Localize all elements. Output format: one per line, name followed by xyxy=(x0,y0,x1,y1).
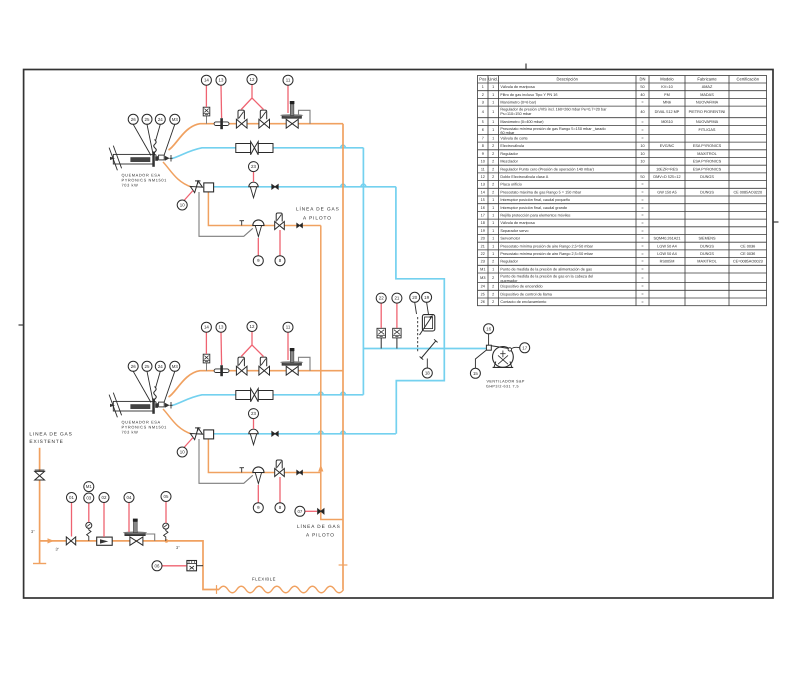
svg-text:Interruptor posición final, ca: Interruptor posición final, caudal grand… xyxy=(500,206,567,210)
ignition cable squiggle train2 xyxy=(154,387,157,403)
svg-text:1: 1 xyxy=(492,110,494,114)
svg-text:KV=10: KV=10 xyxy=(661,85,673,89)
leader 14 train1 xyxy=(205,85,207,107)
svg-text:A PILOTO: A PILOTO xyxy=(306,533,335,538)
wire gray impulse line train1 xyxy=(199,192,253,236)
svg-text:3: 3 xyxy=(482,101,484,105)
svg-text:24: 24 xyxy=(481,285,485,289)
svg-text:MN6: MN6 xyxy=(663,101,671,105)
svg-text:1: 1 xyxy=(492,198,494,202)
wire orange main gas line train1 xyxy=(169,124,344,150)
svg-text:Válvula de corte: Válvula de corte xyxy=(500,137,527,141)
balloon 13 train1 xyxy=(216,75,226,85)
svg-text:EXISTENTE: EXISTENTE xyxy=(29,439,63,445)
pressure switch 14 train1 xyxy=(206,116,208,124)
leader 18 xyxy=(426,359,428,369)
svg-text:19: 19 xyxy=(481,229,485,233)
valve on air line train2 xyxy=(272,432,278,437)
balloon 16 xyxy=(484,324,494,334)
leader 25 train1 xyxy=(147,124,154,156)
balloon 18 xyxy=(422,368,432,378)
orifice plate 13 train2 xyxy=(214,365,229,376)
valve on air line train1 xyxy=(272,185,278,190)
svg-text:PIETRO FIORENTINI: PIETRO FIORENTINI xyxy=(689,110,726,114)
text quemador train1 xyxy=(122,173,167,188)
svg-text:1: 1 xyxy=(492,214,494,218)
regulator 9 train2 xyxy=(253,467,264,473)
leader 04 xyxy=(128,503,130,533)
svg-text:10: 10 xyxy=(180,203,185,208)
svg-text:60 mbar: 60 mbar xyxy=(500,131,515,135)
parts list table xyxy=(478,76,767,306)
wire cyan air main from fan xyxy=(363,348,486,350)
valve on existing line xyxy=(35,471,45,480)
svg-text:LGW 50 A4: LGW 50 A4 xyxy=(657,244,676,248)
svg-text:50: 50 xyxy=(640,85,644,89)
svg-text:CE=0085AO0023: CE=0085AO0023 xyxy=(733,260,763,264)
balloon 24 train1 xyxy=(155,114,165,124)
svg-text:7: 7 xyxy=(482,137,484,141)
svg-text:21: 21 xyxy=(481,244,485,248)
svg-text:2: 2 xyxy=(492,175,494,179)
svg-text:DUNGS: DUNGS xyxy=(700,190,714,194)
balloon 11 train2 xyxy=(283,322,293,332)
relief valve and box 10 train1 xyxy=(190,181,202,193)
svg-text:2: 2 xyxy=(492,190,494,194)
leader 05 xyxy=(165,502,167,524)
svg-text:Manómetro (0=400 mbar): Manómetro (0=400 mbar) xyxy=(500,120,544,124)
burner QUEMADOR train1 xyxy=(109,146,172,171)
balloon 11 train1 xyxy=(283,75,293,85)
svg-text:DN: DN xyxy=(640,77,646,82)
wire orange supply main xyxy=(40,541,219,590)
leader 25 train2 xyxy=(147,371,154,403)
wire cyan air line 2 train1 xyxy=(214,186,396,188)
small pilot valve train2 xyxy=(297,470,303,474)
svg-text:Certificación: Certificación xyxy=(737,77,760,82)
svg-text:26: 26 xyxy=(131,117,136,122)
leader 02 xyxy=(103,503,105,538)
leader 10 train1 xyxy=(184,191,193,201)
text linea de gas a piloto (train1) xyxy=(296,206,340,221)
wire orange existing gas line vertical xyxy=(39,448,41,564)
svg-text:VENTILADOR S&P: VENTILADOR S&P xyxy=(487,380,525,384)
svg-text:M0510: M0510 xyxy=(661,120,673,124)
svg-text:CE 0036: CE 0036 xyxy=(740,252,755,256)
small pilot valve train1 xyxy=(297,223,303,227)
svg-text:16: 16 xyxy=(486,326,491,331)
svg-text:2: 2 xyxy=(492,167,494,171)
svg-text:2: 2 xyxy=(492,144,494,148)
pressure switch 14 train2 xyxy=(206,363,208,371)
svg-text:NUOVAFIMA: NUOVAFIMA xyxy=(696,101,719,105)
svg-text:MAXITROL: MAXITROL xyxy=(697,152,716,156)
svg-text:1: 1 xyxy=(492,252,494,256)
svg-text:3": 3" xyxy=(31,529,35,534)
wire cyan riser mixer air xyxy=(362,148,364,395)
svg-text:13: 13 xyxy=(481,183,485,187)
balloon 8 train1 xyxy=(275,256,285,266)
svg-text:Presostato mínima presión de a: Presostato mínima presión de aire Rango … xyxy=(500,244,593,248)
solenoid valve 8 train2 xyxy=(275,469,285,477)
svg-text:1: 1 xyxy=(492,128,494,132)
svg-text:Regulador Punto cero (Presión: Regulador Punto cero (Presión de operaci… xyxy=(500,167,594,171)
svg-text:A PILOTO: A PILOTO xyxy=(303,216,332,221)
balloon 10 train2 xyxy=(177,447,187,457)
svg-text:1: 1 xyxy=(492,237,494,241)
svg-text:2: 2 xyxy=(492,160,494,164)
svg-text:26: 26 xyxy=(131,364,136,369)
solenoid valve 12a train2 xyxy=(236,366,247,375)
leader 13 train2 xyxy=(220,332,223,365)
svg-text:1: 1 xyxy=(492,137,494,141)
svg-text:1: 1 xyxy=(492,101,494,105)
svg-text:25: 25 xyxy=(145,117,150,122)
balloon 05 xyxy=(161,492,171,502)
svg-text:14: 14 xyxy=(204,325,209,330)
balloon M1 xyxy=(84,482,94,492)
servomotor 20/19 xyxy=(422,315,434,331)
svg-text:40: 40 xyxy=(640,93,644,97)
balloon 9 train1 xyxy=(253,256,263,266)
regulator 04 xyxy=(130,537,143,545)
leader 21 xyxy=(396,303,398,328)
servo dashed linkage xyxy=(417,317,419,352)
svg-text:Válvula de mariposa: Válvula de mariposa xyxy=(500,221,535,225)
wire orange main gas riser xyxy=(342,124,344,590)
balloon 14 train2 xyxy=(201,322,211,332)
solenoid valve 12a train1 xyxy=(236,119,247,128)
svg-text:Modelo: Modelo xyxy=(660,77,674,82)
svg-text:RS005M: RS005M xyxy=(660,260,675,264)
svg-text:15: 15 xyxy=(481,198,485,202)
svg-text:17: 17 xyxy=(522,345,527,350)
svg-text:DUNGS: DUNGS xyxy=(700,244,714,248)
leader 8 train1 xyxy=(279,230,281,256)
wire orange pilot curve train2 xyxy=(163,409,192,434)
regulator 23 train1 xyxy=(249,182,258,187)
svg-text:15: 15 xyxy=(473,371,478,376)
svg-text:FLEXIBLE: FLEXIBLE xyxy=(252,577,276,582)
svg-text:20: 20 xyxy=(481,237,485,241)
svg-text:11: 11 xyxy=(481,167,485,171)
balloon 14 train1 xyxy=(201,75,211,85)
svg-text:24: 24 xyxy=(158,117,163,122)
svg-text:23: 23 xyxy=(251,164,256,169)
junction dot xyxy=(165,539,169,543)
svg-text:DUNGS: DUNGS xyxy=(700,252,714,256)
svg-text:1: 1 xyxy=(482,85,484,89)
balloon 26 train1 xyxy=(128,114,138,124)
svg-text:03: 03 xyxy=(86,496,91,501)
solenoid valve 8 train1 xyxy=(275,222,285,230)
svg-text:25: 25 xyxy=(481,292,485,296)
svg-text:50: 50 xyxy=(640,175,644,179)
tee mark T train2 xyxy=(240,467,245,469)
svg-text:MAXITROL: MAXITROL xyxy=(697,260,716,264)
svg-text:M1: M1 xyxy=(480,267,485,271)
svg-text:Ps=110=150 mbar: Ps=110=150 mbar xyxy=(500,112,532,116)
svg-text:SIEMENS: SIEMENS xyxy=(698,237,716,241)
filter 02 xyxy=(97,537,113,545)
relief valve and box 10 train2 xyxy=(190,428,202,440)
gauge 05 xyxy=(163,523,169,529)
air pressure switch 22 xyxy=(380,338,382,349)
svg-text:16: 16 xyxy=(481,206,485,210)
balloon 23 train2 xyxy=(249,409,259,419)
svg-text:13: 13 xyxy=(219,78,224,83)
svg-text:Contacto de enclavamiento: Contacto de enclavamiento xyxy=(500,300,546,304)
svg-text:22: 22 xyxy=(481,252,485,256)
svg-text:01: 01 xyxy=(69,495,74,500)
svg-text:Rejilla protección para elemen: Rejilla protección para elementos móvile… xyxy=(500,214,570,218)
svg-text:LÍNEA DE GAS: LÍNEA DE GAS xyxy=(297,523,341,529)
leader 19 xyxy=(427,302,429,314)
svg-text:05: 05 xyxy=(164,494,169,499)
balloon 8 train2 xyxy=(275,503,285,513)
svg-text:5: 5 xyxy=(482,120,484,124)
svg-text:GHP3/2-631 7,5: GHP3/2-631 7,5 xyxy=(486,385,519,389)
svg-text:23: 23 xyxy=(251,411,256,416)
svg-text:24: 24 xyxy=(158,364,163,369)
svg-text:Regulador: Regulador xyxy=(500,152,518,156)
svg-text:Pos: Pos xyxy=(479,77,486,82)
balloon 10 train1 xyxy=(177,200,187,210)
svg-text:Presostato mínima presión de g: Presostato mínima presión de gas Rango 5… xyxy=(500,127,605,131)
svg-text:NUOVAFIMA: NUOVAFIMA xyxy=(696,120,719,124)
svg-text:Dispositivo de encendido: Dispositivo de encendido xyxy=(500,285,542,289)
balloon 22 xyxy=(376,293,386,303)
svg-text:1: 1 xyxy=(492,120,494,124)
svg-text:2: 2 xyxy=(492,292,494,296)
svg-text:23: 23 xyxy=(481,260,485,264)
wire cyan Z route air line 2 xyxy=(396,187,444,434)
svg-text:1: 1 xyxy=(492,85,494,89)
svg-text:14: 14 xyxy=(481,190,485,194)
leader 9 train1 xyxy=(257,238,259,256)
svg-text:1: 1 xyxy=(492,221,494,225)
svg-text:M1: M1 xyxy=(86,484,93,489)
text linea de gas a piloto (bottom) xyxy=(297,523,341,538)
wire cyan mixer air line train1 xyxy=(172,148,363,159)
leader 20 xyxy=(415,302,417,314)
text ventilador xyxy=(486,380,525,389)
leader 06 xyxy=(162,565,187,567)
wire orange main gas line train2 xyxy=(169,371,344,397)
svg-text:Electroválvula: Electroválvula xyxy=(500,144,525,148)
svg-text:AMAZ: AMAZ xyxy=(702,85,713,89)
wire orange pilot gas line train2 xyxy=(208,439,320,473)
svg-text:20: 20 xyxy=(412,295,417,300)
svg-text:40: 40 xyxy=(640,110,644,114)
balloon 12 train2 xyxy=(247,322,257,332)
svg-text:12: 12 xyxy=(481,175,485,179)
svg-text:1: 1 xyxy=(492,206,494,210)
balloon 20 xyxy=(410,292,420,302)
svg-text:Presostato mínima presión de a: Presostato mínima presión de aire Rango … xyxy=(500,252,593,256)
solenoid valve 12b train2 xyxy=(259,366,270,375)
leader 14 train2 xyxy=(205,332,207,354)
leader 13 train1 xyxy=(220,85,223,118)
flow arrow supply xyxy=(48,538,55,543)
frame fold tick top xyxy=(525,64,527,70)
svg-text:10: 10 xyxy=(640,152,644,156)
svg-text:MADAS: MADAS xyxy=(700,93,714,97)
tick on main riser xyxy=(339,564,348,566)
balloon 25 train2 xyxy=(142,361,152,371)
svg-text:2: 2 xyxy=(492,260,494,264)
svg-text:Interruptor posición final, ca: Interruptor posición final, caudal peque… xyxy=(500,198,570,202)
tick flexible start xyxy=(216,585,218,594)
gauge 03 xyxy=(86,522,92,528)
svg-text:22: 22 xyxy=(379,296,384,301)
fan VENTILADOR xyxy=(486,345,513,367)
svg-text:1: 1 xyxy=(492,244,494,248)
svg-text:1: 1 xyxy=(492,93,494,97)
leader 03 xyxy=(88,503,90,522)
svg-text:2: 2 xyxy=(492,300,494,304)
svg-text:1: 1 xyxy=(492,229,494,233)
leader M3 train1 xyxy=(164,124,175,155)
svg-text:07: 07 xyxy=(297,509,302,514)
leader 23 train1 xyxy=(253,172,255,182)
svg-text:DIVAL 512 MP: DIVAL 512 MP xyxy=(655,110,680,114)
wire gray impulse line train2 xyxy=(199,439,253,483)
frame fold tick right xyxy=(773,221,779,223)
svg-text:21: 21 xyxy=(394,296,399,301)
valve 07 xyxy=(318,509,324,514)
frame fold tick left xyxy=(19,324,24,326)
svg-text:06: 06 xyxy=(155,563,160,568)
flow arrow on pilot riser xyxy=(318,465,323,472)
svg-text:ESA PYRONICS: ESA PYRONICS xyxy=(693,167,722,171)
svg-text:Unid.: Unid. xyxy=(488,77,498,82)
tee mark T train1 xyxy=(240,220,245,222)
svg-text:4: 4 xyxy=(482,110,484,114)
svg-text:ESA PYRONICS: ESA PYRONICS xyxy=(693,144,722,148)
drawing frame border xyxy=(24,70,773,599)
svg-text:02: 02 xyxy=(102,495,107,500)
leader 10 train2 xyxy=(184,438,193,448)
svg-text:25: 25 xyxy=(145,364,150,369)
svg-text:Placa orificio: Placa orificio xyxy=(500,183,522,187)
svg-text:Filtro de gas incluso Tipo Y P: Filtro de gas incluso Tipo Y PN 16 xyxy=(500,93,557,97)
balloon 9 train2 xyxy=(253,503,263,513)
text quemador train2 xyxy=(122,420,167,435)
balloon 12 train1 xyxy=(247,75,257,85)
damper valve 18 xyxy=(421,341,436,359)
svg-text:Mezclador: Mezclador xyxy=(500,160,518,164)
balloon 04 xyxy=(124,493,134,503)
balloon 01 xyxy=(67,493,77,503)
svg-text:FITLIGAS: FITLIGAS xyxy=(699,128,716,132)
svg-text:10: 10 xyxy=(640,160,644,164)
regulator 23 train2 xyxy=(249,429,258,434)
svg-text:Regulador: Regulador xyxy=(500,260,518,264)
svg-text:FM: FM xyxy=(664,93,669,97)
svg-text:ESA PYRONICS: ESA PYRONICS xyxy=(693,160,722,164)
svg-text:6: 6 xyxy=(482,128,484,132)
regulator 9 train1 xyxy=(253,220,264,226)
leader 8 train2 xyxy=(279,477,281,503)
svg-text:2: 2 xyxy=(492,276,494,280)
svg-text:12: 12 xyxy=(250,77,255,82)
svg-text:M3: M3 xyxy=(172,117,179,122)
solenoid valve 12b train1 xyxy=(259,119,270,128)
svg-text:3": 3" xyxy=(176,545,180,550)
svg-text:Servomotor: Servomotor xyxy=(500,237,520,241)
svg-text:19: 19 xyxy=(424,295,429,300)
svg-text:CE 0085AO3220: CE 0085AO3220 xyxy=(733,190,762,194)
svg-text:04: 04 xyxy=(127,495,132,500)
end cap existing line xyxy=(33,563,46,565)
balloon 24 train2 xyxy=(155,361,165,371)
balloon 25 train1 xyxy=(142,114,152,124)
svg-text:Doble Electroválvula clase A: Doble Electroválvula clase A xyxy=(500,175,548,179)
svg-text:3": 3" xyxy=(56,547,60,552)
svg-text:18: 18 xyxy=(425,371,430,376)
leader 17 xyxy=(511,347,519,349)
balloon 23 train1 xyxy=(249,162,259,172)
svg-text:2: 2 xyxy=(492,152,494,156)
svg-text:26: 26 xyxy=(481,300,485,304)
svg-text:9: 9 xyxy=(482,152,484,156)
svg-text:10: 10 xyxy=(180,450,185,455)
svg-text:Dispositivo de control de llam: Dispositivo de control de llama xyxy=(500,292,552,296)
svg-text:LGW 50 A4: LGW 50 A4 xyxy=(657,252,676,256)
leader 12 fork train2 xyxy=(241,331,263,356)
balloon 21 xyxy=(392,293,402,303)
mixer venturi 10/17 train2 xyxy=(236,389,273,402)
leader 07 xyxy=(305,510,317,512)
balloon 19 xyxy=(422,292,432,302)
svg-text:quemador: quemador xyxy=(500,279,518,283)
svg-text:8: 8 xyxy=(482,144,484,148)
burner QUEMADOR train2 xyxy=(109,393,172,418)
leader 24 train1 xyxy=(156,124,161,141)
text linea de gas existente xyxy=(29,432,72,445)
leader M3 train2 xyxy=(164,371,175,402)
leader 12 fork train1 xyxy=(241,84,263,109)
svg-text:SQM40.261A21: SQM40.261A21 xyxy=(653,237,680,241)
wire orange pilot curve train1 xyxy=(163,162,192,187)
mixer venturi 10/17 train1 xyxy=(236,142,273,155)
balloon 13 train2 xyxy=(216,322,226,332)
ignition cable squiggle train1 xyxy=(154,140,157,156)
balloon M3 train1 xyxy=(170,114,180,124)
balloon 15 xyxy=(470,368,480,378)
svg-text:10EZR=RES: 10EZR=RES xyxy=(656,167,678,171)
svg-text:CE 0036: CE 0036 xyxy=(740,244,755,248)
air pressure switch 21 xyxy=(396,338,398,349)
leader 01 xyxy=(71,503,73,537)
leader 24 train2 xyxy=(156,371,161,388)
svg-text:11: 11 xyxy=(286,78,291,83)
svg-text:M3: M3 xyxy=(172,364,179,369)
flexible hose xyxy=(219,586,344,593)
balloon 02 xyxy=(99,493,109,503)
leader 11 train2 xyxy=(287,332,289,360)
wire orange pilot riser xyxy=(321,226,343,520)
svg-text:14: 14 xyxy=(204,78,209,83)
meter 06 xyxy=(187,561,197,571)
balloon M3 train2 xyxy=(170,361,180,371)
svg-text:13: 13 xyxy=(219,325,224,330)
svg-text:Separador servo: Separador servo xyxy=(500,229,528,233)
leader 16 xyxy=(488,334,490,345)
svg-text:2: 2 xyxy=(492,285,494,289)
balloon 03 xyxy=(84,493,94,503)
